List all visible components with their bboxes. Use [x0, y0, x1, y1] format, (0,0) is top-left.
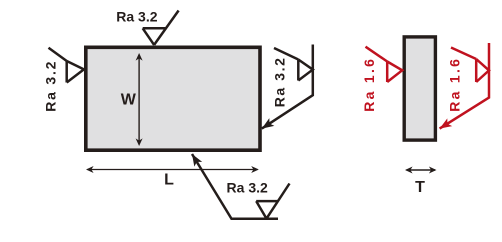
svg-text:Ra 3.2: Ra 3.2: [227, 179, 268, 195]
svg-text:Ra 1.6: Ra 1.6: [361, 57, 377, 112]
leader arrowhead (right surface): [259, 118, 274, 132]
svg-text:W: W: [121, 92, 137, 109]
surface symbol bottom Ra 3.2 (on leader shoulder): [256, 184, 289, 219]
svg-text:Ra 1.6: Ra 1.6: [446, 57, 462, 112]
svg-text:T: T: [415, 179, 425, 196]
leader arrowhead (red): [437, 118, 452, 132]
dimension T (horizontal double arrow): [405, 167, 437, 174]
dimension L (horizontal double arrow): [86, 166, 259, 173]
leader to bottom surface: [192, 154, 278, 219]
side plate (side view): [404, 37, 435, 140]
svg-text:L: L: [164, 172, 174, 189]
svg-text:Ra 3.2: Ra 3.2: [272, 56, 288, 107]
leader to right surface (red): [440, 43, 489, 129]
surface symbol right Ra 3.2 (on leader shoulder): [274, 48, 313, 81]
leader arrowhead (bottom surface): [188, 152, 202, 167]
svg-text:Ra 3.2: Ra 3.2: [42, 60, 58, 112]
svg-text:Ra 3.2: Ra 3.2: [116, 9, 157, 25]
dimension W (vertical double arrow): [136, 53, 143, 146]
surface symbol left Ra 3.2: [49, 48, 84, 83]
leader to right surface: [262, 45, 313, 129]
surface symbol right Ra 1.6 (red, on leader shoulder): [451, 48, 489, 83]
surface symbol top Ra 3.2: [143, 11, 179, 45]
surface symbol left Ra 1.6 (red): [366, 47, 403, 82]
main plate (front view): [86, 47, 260, 150]
